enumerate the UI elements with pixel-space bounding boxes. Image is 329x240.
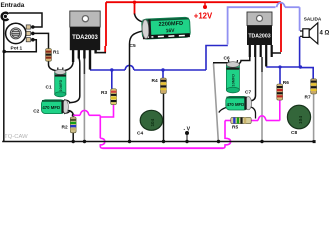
node blue junction R4	[161, 68, 164, 71]
wire gray ground pin3 right TDA	[261, 72, 263, 141]
wire black pin1 left to C1	[64, 62, 74, 71]
capacitor C4 disc	[140, 110, 162, 130]
svg-text:R2: R2	[62, 124, 68, 130]
node bus junction C4/R4	[162, 140, 165, 143]
wire gray C6/C7 ground drop	[214, 64, 219, 141]
svg-text:10MFD: 10MFD	[232, 74, 236, 87]
svg-text:R3: R3	[101, 90, 107, 96]
svg-text:R5: R5	[232, 125, 238, 131]
wire black C2 to R2	[68, 111, 73, 116]
node -V terminal	[185, 131, 189, 135]
resistor R5	[231, 117, 251, 123]
wire blue pin4-left output run	[90, 46, 228, 89]
resistor R2	[70, 117, 76, 133]
wire black R2 bottom	[72, 133, 74, 141]
resistor R3	[111, 89, 117, 105]
capacitor C2	[41, 100, 69, 114]
wire black pin1 right to C6	[239, 57, 250, 64]
potentiometer Pot 1	[6, 23, 26, 43]
svg-text:2200MFD: 2200MFD	[158, 21, 183, 28]
node blue junction speaker	[299, 65, 302, 68]
node bus junction pin3 left	[83, 140, 86, 143]
wire black C7 lower lead	[251, 107, 256, 119]
IC U1 TDA2003 left	[70, 11, 100, 70]
IC U2 TDA2003 right	[247, 12, 273, 67]
svg-text:+12V: +12V	[194, 11, 213, 20]
wire black pot wiper to R1	[34, 33, 49, 61]
wire black jack to pot terminal 1	[9, 13, 42, 27]
wire black left ground line	[3, 21, 5, 142]
capacitor C7	[226, 96, 252, 110]
svg-text:C6: C6	[224, 55, 230, 61]
wire black pin5 left jog	[96, 52, 106, 54]
wire black R4/C4 down to bus	[163, 94, 165, 141]
wire black R1 to C1	[49, 61, 57, 71]
wire pink feedback net left	[73, 105, 231, 149]
svg-text:C8: C8	[291, 130, 297, 136]
node +12V junction dot	[133, 1, 136, 4]
node blue junction R3	[110, 68, 113, 71]
wire black C5 minus lead down to bus	[130, 31, 144, 141]
svg-text:TDA2003: TDA2003	[248, 34, 270, 40]
resistor R4	[161, 78, 167, 94]
svg-text:4 Ω: 4 Ω	[320, 31, 329, 37]
resistor R1	[46, 49, 52, 62]
svg-text:- V: - V	[184, 126, 191, 132]
node bus junction -V	[185, 140, 188, 143]
svg-text:R4: R4	[152, 78, 158, 84]
svg-text:10MFD: 10MFD	[59, 79, 63, 91]
svg-text:C1: C1	[46, 84, 52, 90]
speaker SALIDA	[300, 23, 318, 44]
wire black pot terminal 3 to ground	[4, 40, 36, 52]
svg-text:470 MFD: 470 MFD	[42, 105, 60, 110]
svg-text:104: 104	[298, 116, 304, 124]
node bus junction C5	[128, 140, 131, 143]
svg-text:TQ-CAW: TQ-CAW	[4, 134, 28, 140]
capacitor C6	[226, 60, 239, 93]
node bus junction C6/C7	[217, 140, 220, 143]
wire +12V red rail	[105, 2, 281, 52]
node bus junction pin3 right	[260, 140, 263, 143]
svg-text:R6: R6	[283, 80, 289, 86]
wire gray ground pin3 left TDA	[83, 74, 85, 141]
svg-text:104: 104	[150, 118, 155, 126]
wire black pin5 right jog	[272, 45, 281, 53]
capacitor C1	[55, 68, 66, 97]
resistor R6	[277, 84, 283, 100]
svg-text:R1: R1	[53, 50, 59, 56]
svg-text:C7: C7	[245, 90, 251, 96]
svg-text:C5: C5	[130, 43, 136, 49]
svg-text:470 MFD: 470 MFD	[227, 102, 245, 107]
svg-text:TDA2003: TDA2003	[72, 35, 98, 41]
wire black C5 plus lead to red stub	[135, 14, 144, 23]
svg-text:Pot 1: Pot 1	[11, 46, 23, 52]
node blue junction R6	[278, 65, 281, 68]
svg-text:C4: C4	[137, 131, 143, 137]
wire black pin2 right to C7	[251, 57, 256, 101]
wire periwinkle output line (top)	[228, 3, 300, 45]
node junction R2 top / pink	[72, 114, 75, 117]
wire gray R7 to bus corner	[313, 94, 315, 141]
svg-text:16V: 16V	[166, 28, 176, 34]
resistor R7	[311, 79, 317, 94]
connector input jack	[2, 13, 9, 20]
capacitor C5	[142, 17, 191, 39]
wire blue pin4-right output run	[266, 37, 313, 85]
wire black ground bus	[2, 141, 314, 143]
svg-text:Entrada: Entrada	[1, 2, 25, 9]
svg-text:C2: C2	[33, 109, 39, 115]
capacitor C8 disc	[287, 105, 310, 129]
node +12V supply terminal	[204, 2, 206, 5]
node bus end square	[313, 140, 316, 143]
node bus junction R2	[72, 140, 75, 143]
wire black pin2 left to C2	[69, 58, 80, 103]
svg-text:R7: R7	[305, 94, 311, 100]
wire pink feedback net right	[251, 100, 280, 121]
wire black C6 left lead line	[213, 63, 229, 65]
svg-text:SALIDA: SALIDA	[304, 16, 322, 21]
wire black C7 left lead	[219, 108, 226, 113]
